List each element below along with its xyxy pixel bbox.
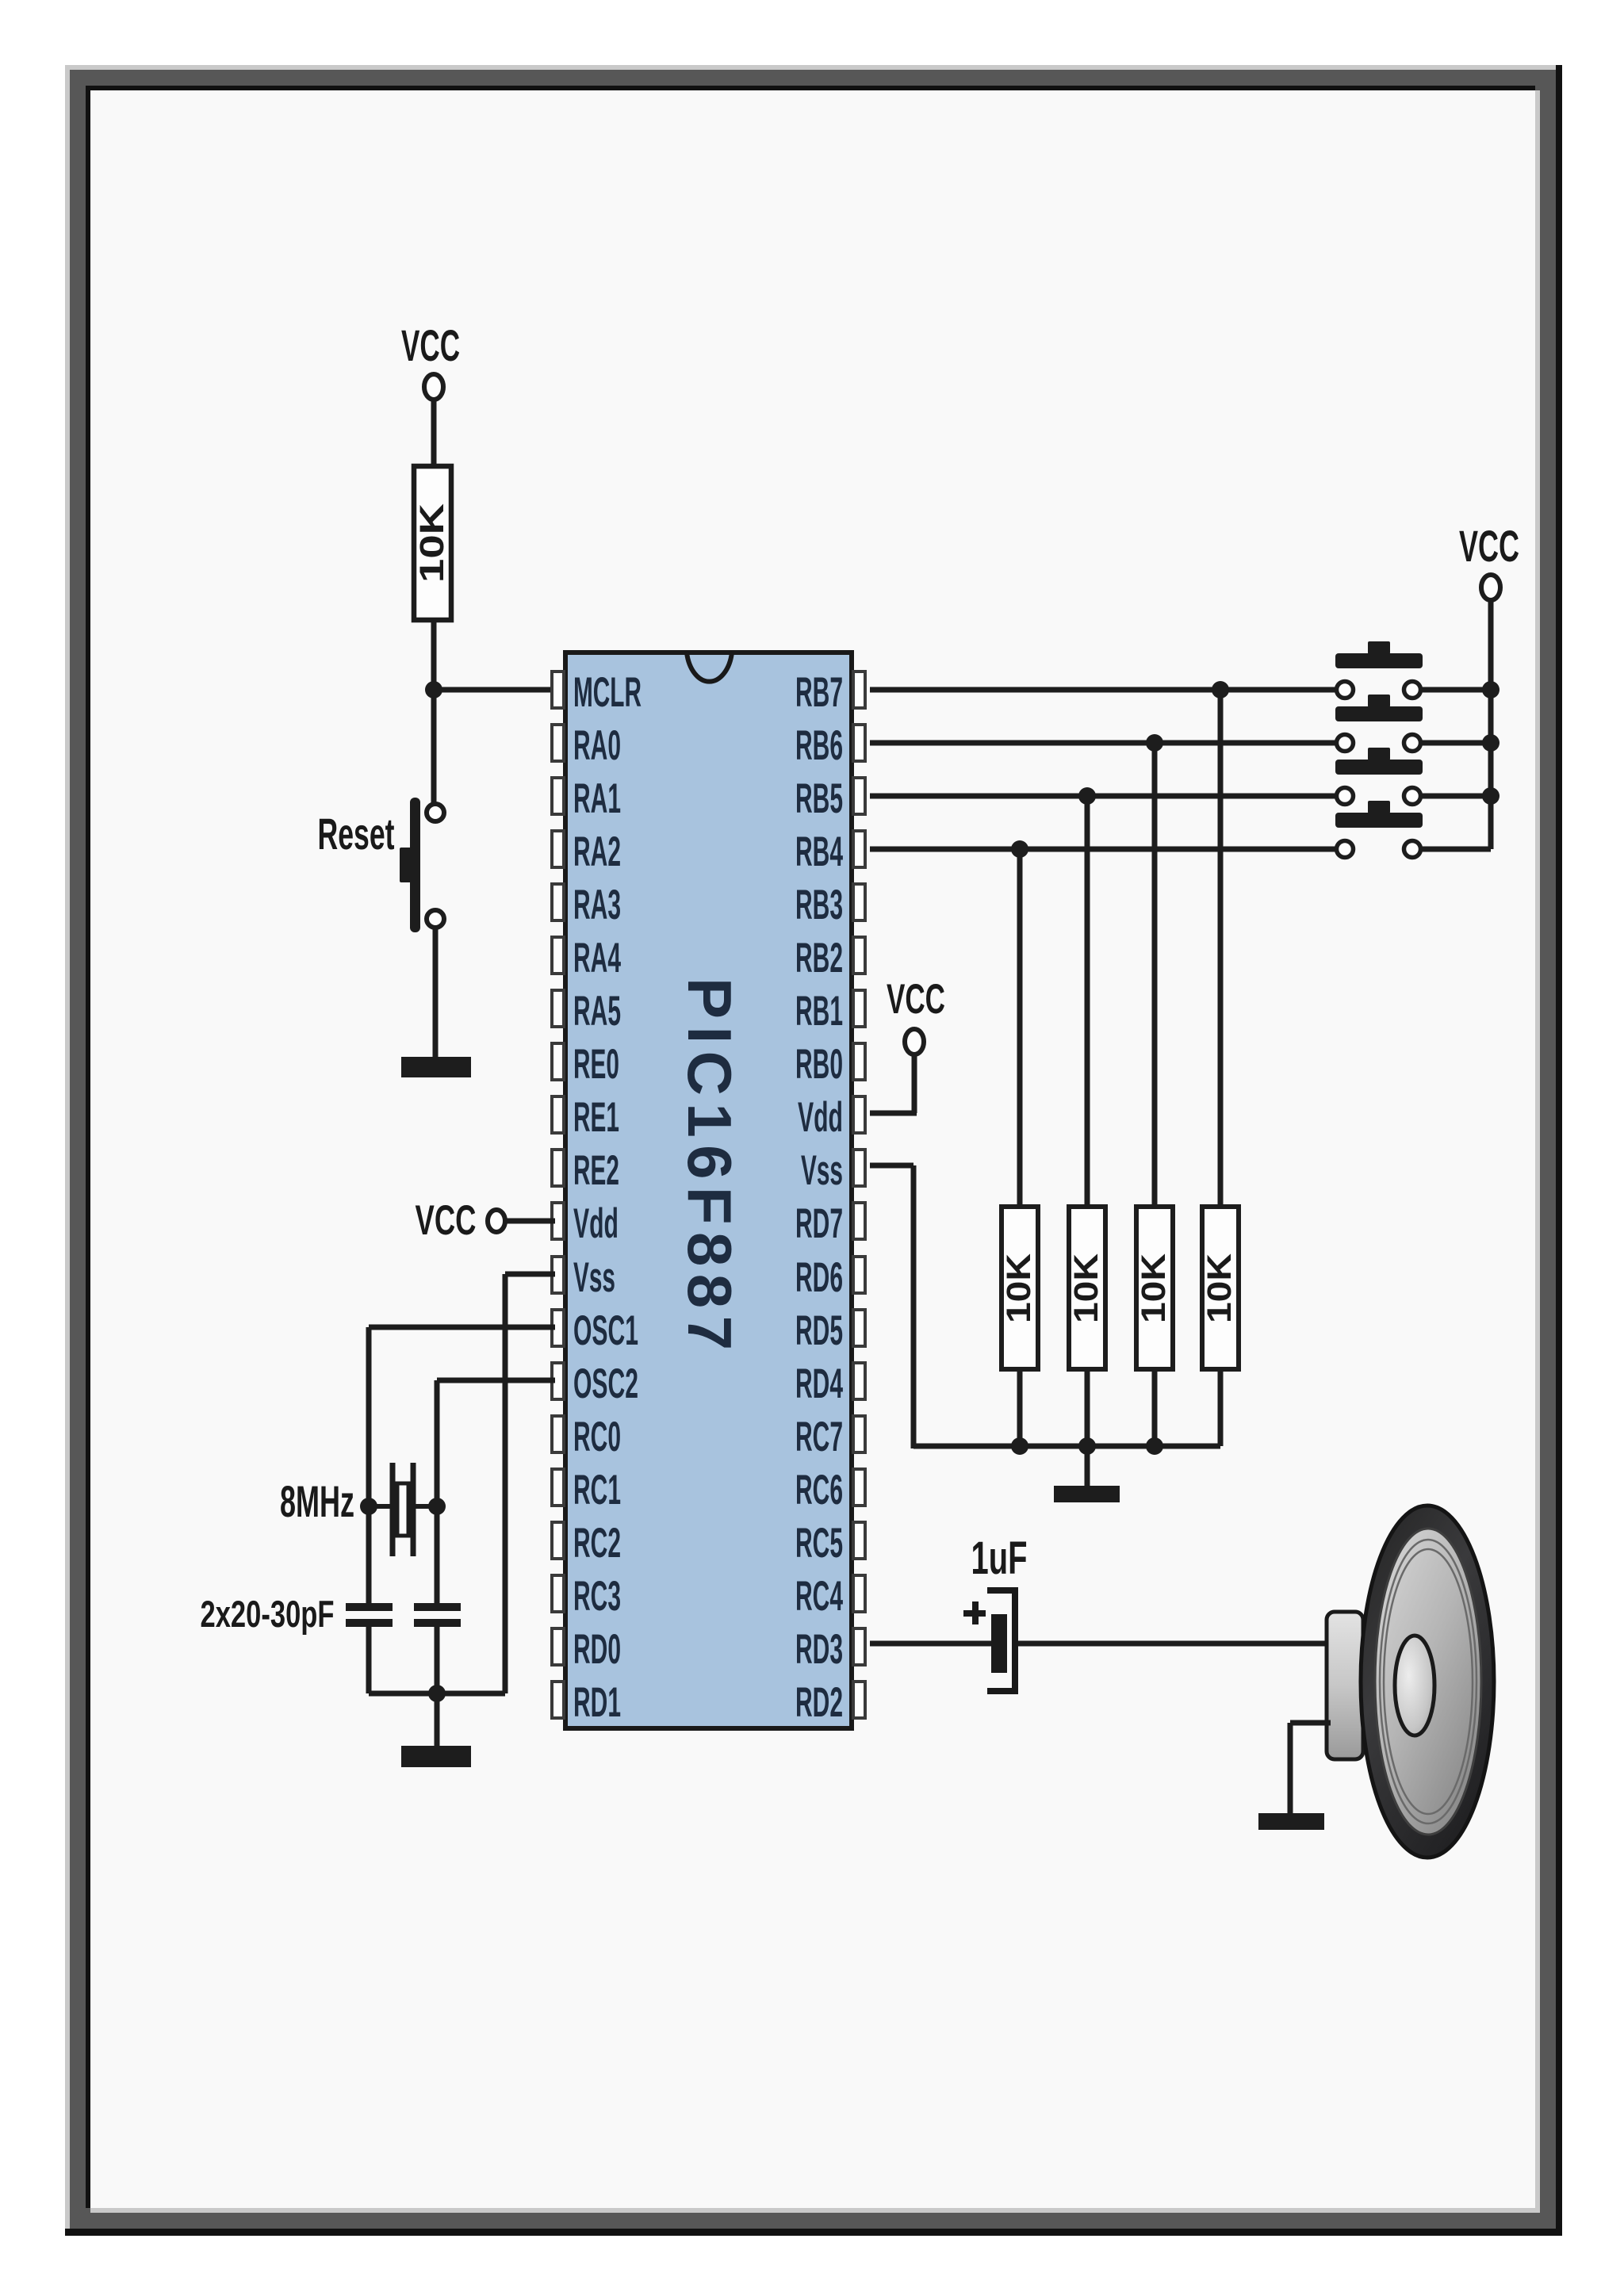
power VCC (at Vdd right) bbox=[887, 976, 945, 1054]
svg-text:RC6: RC6 bbox=[795, 1467, 843, 1513]
svg-text:10K: 10K bbox=[1067, 1253, 1105, 1323]
IC U1 pin RA0 (left pin 2) bbox=[552, 722, 621, 769]
node crystal left bbox=[360, 1498, 377, 1515]
node RB6 / R3 junction bbox=[1146, 734, 1163, 752]
wire OSC1 to crystal left bbox=[369, 1325, 555, 1330]
svg-text:RA4: RA4 bbox=[573, 935, 621, 982]
IC U1 pin RC0 (left pin 15) bbox=[552, 1414, 621, 1460]
capacitor C2 20-30pF bbox=[414, 1607, 461, 1623]
IC U1 pin RA1 (left pin 3) bbox=[552, 775, 621, 822]
IC U1 pin Vdd (right pin 32) bbox=[798, 1094, 865, 1141]
IC U1 pin RB3 (right pin 36) bbox=[795, 882, 865, 928]
svg-text:10K: 10K bbox=[413, 503, 451, 583]
IC U1 pin RB2 (right pin 35) bbox=[795, 935, 865, 982]
wire button S1 to VCC bus bbox=[1422, 687, 1491, 693]
wire RB7 down to resistor R2 bbox=[1218, 690, 1224, 1208]
IC U1 pin RB6 (right pin 39) bbox=[795, 722, 865, 769]
svg-text:OSC2: OSC2 bbox=[573, 1360, 638, 1407]
wire RB7 pin to button S1 bbox=[870, 687, 1336, 693]
wire Vss pin to bus bbox=[870, 1163, 913, 1169]
svg-text:Vss: Vss bbox=[573, 1254, 615, 1301]
wire RB5 pin to button S3 bbox=[870, 794, 1336, 799]
capacitor C3 1uF polarized bbox=[963, 1590, 1015, 1691]
node crystal right bbox=[428, 1498, 446, 1515]
svg-text:10K: 10K bbox=[1000, 1253, 1038, 1323]
node bottom bus bbox=[428, 1685, 446, 1702]
svg-text:RB6: RB6 bbox=[795, 722, 843, 769]
svg-text:RC2: RC2 bbox=[573, 1520, 621, 1567]
svg-text:RD0: RD0 bbox=[573, 1626, 621, 1673]
IC U1 pin RA2 (left pin 4) bbox=[552, 828, 621, 875]
IC U1 pin RD5 (right pin 28) bbox=[795, 1307, 865, 1354]
wire C1 to bottom bus bbox=[366, 1627, 372, 1693]
wire C2 to bottom bus bbox=[435, 1627, 440, 1693]
IC U1 pin Vss (left pin 12) bbox=[552, 1254, 615, 1301]
ground (below resistor bus) bbox=[1054, 1486, 1120, 1502]
resistor R1 10K bbox=[413, 466, 451, 620]
svg-text:Vss: Vss bbox=[801, 1147, 843, 1194]
svg-text:RD6: RD6 bbox=[795, 1254, 843, 1301]
wire RB4 pin to button S4 bbox=[870, 847, 1336, 852]
svg-text:RE1: RE1 bbox=[573, 1094, 619, 1141]
wire VCC to Vdd left pin bbox=[505, 1219, 555, 1224]
svg-text:RB0: RB0 bbox=[795, 1041, 843, 1088]
ground (below speaker) bbox=[1258, 1813, 1324, 1830]
svg-text:RA3: RA3 bbox=[573, 882, 621, 928]
IC U1 pin RC2 (left pin 17) bbox=[552, 1520, 621, 1567]
wire Reset to ground bbox=[433, 928, 439, 1062]
IC U1 pin RC6 (right pin 25) bbox=[795, 1467, 865, 1513]
node bus R2 bbox=[1011, 1437, 1028, 1455]
wire Vss left pin down bbox=[505, 1272, 555, 1277]
svg-text:VCC: VCC bbox=[1459, 521, 1519, 571]
svg-text:10K: 10K bbox=[1201, 1253, 1239, 1323]
IC U1 PIC16F887 body bbox=[565, 652, 852, 1728]
wire button S2 to VCC bus bbox=[1422, 740, 1491, 746]
svg-text:VCC: VCC bbox=[401, 320, 460, 370]
node MCLR junction bbox=[425, 681, 442, 698]
IC U1 pin Vdd (left pin 11) bbox=[552, 1200, 619, 1247]
IC U1 pin RD1 (left pin 20) bbox=[552, 1679, 621, 1726]
wire node to MCLR pin bbox=[434, 687, 555, 693]
capacitor C1 20-30pF bbox=[346, 1607, 393, 1623]
node RB7 / R2 junction bbox=[1212, 681, 1229, 698]
svg-text:RC5: RC5 bbox=[795, 1520, 843, 1567]
IC U1 pin Vss (right pin 31) bbox=[801, 1147, 865, 1194]
node bus R3 bbox=[1078, 1437, 1096, 1455]
wire R3 to bus bbox=[1085, 1369, 1090, 1446]
svg-text:1uF: 1uF bbox=[971, 1533, 1028, 1584]
resistor R4 10K bbox=[1135, 1207, 1173, 1369]
IC U1 pin RB4 (right pin 37) bbox=[795, 828, 865, 875]
wire C3 to speaker bbox=[1018, 1641, 1331, 1647]
wire button S3 to VCC bus bbox=[1422, 794, 1491, 799]
svg-text:RC3: RC3 bbox=[573, 1573, 621, 1620]
wire RD3 to C3 bbox=[870, 1641, 992, 1647]
wire RB4 down to resistor R5 bbox=[1017, 849, 1023, 1208]
IC U1 pin RB7 (right pin 40) bbox=[795, 669, 865, 716]
wire speaker to ground bbox=[1290, 1720, 1331, 1726]
ground (below Reset) bbox=[401, 1057, 471, 1077]
node VCC bus row 1 bbox=[1482, 681, 1500, 698]
wire R5 to bus bbox=[1218, 1369, 1224, 1446]
svg-text:VCC: VCC bbox=[887, 976, 945, 1023]
svg-text:RA0: RA0 bbox=[573, 722, 621, 769]
wire bus to ground bbox=[1085, 1446, 1090, 1487]
svg-text:RD4: RD4 bbox=[795, 1360, 843, 1407]
svg-text:RC7: RC7 bbox=[795, 1414, 843, 1460]
svg-text:PIC16F887: PIC16F887 bbox=[675, 978, 745, 1350]
svg-text:RA1: RA1 bbox=[573, 775, 621, 822]
svg-text:MCLR: MCLR bbox=[573, 669, 642, 716]
IC U1 pin RA4 (left pin 6) bbox=[552, 935, 621, 982]
IC U1 pin RE2 (left pin 10) bbox=[552, 1147, 619, 1194]
svg-text:Vdd: Vdd bbox=[798, 1094, 843, 1141]
IC U1 pin RB1 (right pin 34) bbox=[795, 988, 865, 1035]
node RB4 / R5 junction bbox=[1011, 840, 1028, 858]
svg-text:RB4: RB4 bbox=[795, 828, 843, 875]
pushbutton S1 bbox=[1335, 641, 1423, 698]
wire VCC to R1 bbox=[431, 400, 437, 469]
IC U1 pin RD0 (left pin 19) bbox=[552, 1626, 621, 1673]
svg-text:RB2: RB2 bbox=[795, 935, 843, 982]
IC U1 pin RA3 (left pin 5) bbox=[552, 882, 621, 928]
svg-text:RD1: RD1 bbox=[573, 1679, 621, 1726]
wire VCC down buttons bus bbox=[1488, 600, 1494, 849]
ground (below crystal) bbox=[401, 1746, 471, 1767]
svg-text:RA5: RA5 bbox=[573, 988, 621, 1035]
resistor R3 10K bbox=[1067, 1207, 1105, 1369]
svg-text:8MHz: 8MHz bbox=[280, 1476, 354, 1526]
wire R4 to bus bbox=[1152, 1369, 1158, 1446]
node RB5 / R4 junction bbox=[1078, 787, 1096, 805]
wire bottom bus bbox=[369, 1691, 505, 1697]
IC U1 pin RD6 (right pin 29) bbox=[795, 1254, 865, 1301]
svg-text:RD2: RD2 bbox=[795, 1679, 843, 1726]
svg-text:RA2: RA2 bbox=[573, 828, 621, 875]
wire button S4 to VCC bus bbox=[1422, 847, 1491, 852]
wire OSC2 to crystal right bbox=[437, 1378, 555, 1383]
svg-text:Vdd: Vdd bbox=[573, 1200, 619, 1247]
pushbutton S2 bbox=[1335, 695, 1423, 752]
IC U1 pin OSC1 (left pin 13) bbox=[552, 1307, 638, 1354]
svg-text:2x20-30pF: 2x20-30pF bbox=[201, 1593, 335, 1635]
wire RB5 down to resistor R4 bbox=[1085, 796, 1090, 1208]
IC U1 pin RD3 (right pin 22) bbox=[795, 1626, 865, 1673]
svg-text:RB7: RB7 bbox=[795, 669, 843, 716]
IC U1 pin RC5 (right pin 24) bbox=[795, 1520, 865, 1567]
wire R1 to MCLR node and Reset bbox=[431, 620, 437, 804]
resistor R5 10K bbox=[1201, 1207, 1239, 1369]
node VCC bus row 3 bbox=[1482, 787, 1500, 805]
svg-text:RE0: RE0 bbox=[573, 1041, 619, 1088]
IC U1 pin RB0 (right pin 33) bbox=[795, 1041, 865, 1088]
svg-text:RC4: RC4 bbox=[795, 1573, 843, 1620]
svg-text:RE2: RE2 bbox=[573, 1147, 619, 1194]
svg-text:RD5: RD5 bbox=[795, 1307, 843, 1354]
power VCC (top left) bbox=[401, 320, 460, 400]
IC U1 pin OSC2 (left pin 14) bbox=[552, 1360, 638, 1407]
IC U1 pin RD7 (right pin 30) bbox=[795, 1200, 865, 1247]
svg-text:RB1: RB1 bbox=[795, 988, 843, 1035]
node VCC bus row 2 bbox=[1482, 734, 1500, 752]
resistor R2 10K bbox=[1000, 1207, 1038, 1369]
crystal X1 8MHz bbox=[369, 1463, 437, 1556]
IC U1 pin MCLR (left pin 1) bbox=[552, 669, 642, 716]
svg-text:VCC: VCC bbox=[416, 1197, 477, 1244]
IC U1 pin RE0 (left pin 8) bbox=[552, 1041, 619, 1088]
IC U1 pin RD2 (right pin 21) bbox=[795, 1679, 865, 1726]
wire R2 to bus bbox=[1017, 1369, 1023, 1446]
IC U1 pin RC3 (left pin 18) bbox=[552, 1573, 621, 1620]
IC U1 pin RE1 (left pin 9) bbox=[552, 1094, 619, 1141]
wire resistor bottom bus bbox=[913, 1444, 1220, 1449]
IC U1 pin RC1 (left pin 16) bbox=[552, 1467, 621, 1513]
IC U1 pin RD4 (right pin 27) bbox=[795, 1360, 865, 1407]
wire RB6 pin to button S2 bbox=[870, 740, 1336, 746]
node bus R4 bbox=[1146, 1437, 1163, 1455]
IC U1 pin RA5 (left pin 7) bbox=[552, 988, 621, 1035]
svg-text:Reset: Reset bbox=[318, 809, 395, 859]
pushbutton S3 bbox=[1335, 748, 1423, 805]
svg-text:RC1: RC1 bbox=[573, 1467, 621, 1513]
svg-text:RB3: RB3 bbox=[795, 882, 843, 928]
svg-text:RD3: RD3 bbox=[795, 1626, 843, 1673]
svg-text:OSC1: OSC1 bbox=[573, 1307, 638, 1354]
wire RB6 down to resistor R3 bbox=[1152, 743, 1158, 1208]
IC U1 pin RB5 (right pin 38) bbox=[795, 775, 865, 822]
pushbutton Reset bbox=[400, 798, 444, 932]
svg-text:10K: 10K bbox=[1135, 1253, 1173, 1323]
power VCC (top right) bbox=[1459, 521, 1519, 600]
svg-text:RB5: RB5 bbox=[795, 775, 843, 822]
IC U1 pin RC7 (right pin 26) bbox=[795, 1414, 865, 1460]
svg-text:RC0: RC0 bbox=[573, 1414, 621, 1460]
wire VCC to Vdd pin bbox=[912, 1054, 917, 1113]
pushbutton S4 bbox=[1335, 801, 1423, 858]
power VCC (at Vdd left) bbox=[416, 1197, 506, 1244]
svg-text:RD7: RD7 bbox=[795, 1200, 843, 1247]
wire bus to ground bbox=[435, 1693, 440, 1747]
speaker LS1 bbox=[1327, 1506, 1494, 1858]
IC U1 pin RC4 (right pin 23) bbox=[795, 1573, 865, 1620]
